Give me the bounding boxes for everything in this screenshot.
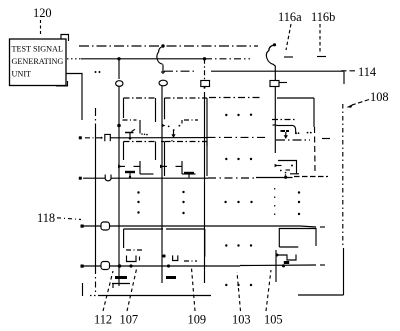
leader 105 [266, 270, 271, 311]
bus2 stray dashes [284, 56, 293, 58]
data line col2 [161, 86, 163, 283]
TFT/cap T12 [118, 161, 154, 178]
gate test line y=71.2 [164, 70, 196, 72]
panel border left (dash-dot bottom) [95, 268, 97, 295]
label 108 [370, 90, 389, 104]
svg-text:TEST SIGNAL: TEST SIGNAL [12, 45, 63, 54]
svg-text:UNIT: UNIT [12, 70, 32, 79]
svg-text:105: 105 [264, 313, 283, 327]
label 120 [33, 6, 52, 20]
panel border left (solid mid) [95, 128, 97, 268]
leader 107 [127, 267, 137, 311]
repetition dots columns (vertical ellipsis) [137, 191, 300, 215]
svg-text:107: 107 [120, 313, 139, 327]
bus1 hook drop at x=275 with hop [266, 45, 275, 81]
gate line G1 main [110, 137, 207, 139]
pad P4 (square) [270, 81, 279, 87]
panel top dash-dot segment [209, 97, 262, 99]
wire drop x=119 [118, 59, 120, 79]
stray dots right of box wire [95, 71, 97, 73]
label 116b [311, 10, 335, 24]
leader 108 with arrow [352, 100, 369, 106]
svg-text:GENERATING: GENERATING [12, 57, 64, 66]
gate line G2 main [111, 177, 208, 179]
pixel cell (4,1) [277, 98, 315, 171]
pixel cell (2,1) [165, 98, 208, 146]
label 109 [188, 313, 207, 327]
node on bus1 at x=163 [161, 44, 164, 47]
gate line G2 y=178.2 left [79, 177, 105, 180]
pad P3 (square) [201, 81, 210, 87]
svg-text:108: 108 [370, 90, 389, 104]
leader 112 [103, 271, 113, 311]
panel border right (dash-dot x=342.8) [342, 104, 344, 248]
gate line G1 y=137.8 left leader [79, 136, 103, 139]
bus line 2 (solid test data line, y=58.8) [67, 58, 81, 60]
pixel cell (1,2) [124, 142, 156, 161]
label 112 [94, 313, 112, 327]
svg-text:112: 112 [94, 313, 112, 327]
gate line G3 y=226 left [81, 225, 102, 228]
pad P4 stub [279, 82, 287, 84]
svg-text:118: 118 [37, 211, 55, 225]
test signal generating unit box U120 [10, 35, 69, 86]
leader 116b [319, 24, 321, 54]
TFT T21 [161, 120, 198, 142]
pixel cell (2,2) [165, 142, 208, 177]
svg-text:109: 109 [188, 313, 207, 327]
bus line 1 (dash-dot test data line, y=46) [79, 45, 258, 47]
pixel cell (1,3) [124, 229, 163, 250]
bottom TFT B4 [276, 254, 297, 268]
pixel cell (4,2) [278, 161, 297, 175]
data line col1 [118, 87, 120, 287]
TFT/cap T42 [275, 164, 293, 179]
box text [12, 45, 64, 79]
svg-text:116b: 116b [311, 10, 335, 24]
data line col4 dotted mid [274, 188, 276, 220]
left test line vertical x=82 lower segment [82, 283, 84, 296]
TFT T11 [117, 120, 148, 140]
gate pad G2 (U shape) [105, 175, 111, 181]
label 105 [264, 313, 283, 327]
right corner of gate test line [343, 71, 345, 84]
panel border left (dash-dot x=95.5 top) [95, 108, 97, 128]
leader 116a [286, 24, 291, 50]
leader 109 [192, 268, 196, 311]
label 107 [120, 313, 139, 327]
svg-text:120: 120 [33, 6, 52, 20]
svg-text:116a: 116a [278, 10, 302, 24]
gate line G4 y=266 left [81, 265, 102, 268]
leader for 120 [40, 20, 42, 35]
gate line G4 main [110, 265, 241, 267]
gate line G1 right dashes [276, 139, 310, 141]
node bus2 x=119 [117, 57, 120, 60]
TFT T41 [272, 120, 312, 140]
label 114 [358, 65, 376, 79]
bottom TFT B1 [112, 256, 140, 289]
data line col3 [204, 92, 206, 283]
wire drop x=163 with hop over bus2 [157, 47, 163, 65]
wire drop x=204.5 (dash-dot) [204, 59, 206, 81]
data line col4 lower [275, 250, 277, 282]
svg-text:114: 114 [358, 65, 376, 79]
pad P2 (oval) [159, 80, 167, 86]
panel border bottom (dash-dot y=295.5) [90, 295, 97, 297]
pixel cell (1,1) [124, 98, 156, 122]
pad P1 (oval) [116, 81, 123, 87]
label 116a [278, 10, 302, 24]
gate pad G4 (O shape) [101, 262, 110, 270]
leader 118 [57, 218, 81, 220]
label 103 [232, 313, 251, 327]
bottom TFT B2 [162, 254, 177, 279]
data line col4 upper [274, 87, 276, 154]
svg-text:103: 103 [232, 313, 251, 327]
leader 114 [341, 70, 356, 72]
pixel cell (4,3) [279, 229, 316, 248]
panel border bottom-right corner [298, 294, 344, 296]
TFT/cap T22 [160, 161, 196, 178]
leader 103 [237, 272, 241, 311]
repetition dots rows (horizontal ellipsis) [224, 114, 252, 287]
label 118 [37, 211, 55, 225]
gate pad G1 (n shape) [105, 134, 111, 141]
node at bus1 hook [273, 43, 276, 46]
pixel cell (2,3) [166, 229, 205, 261]
wire from box to left vertical [66, 74, 82, 121]
gate pad G3 (O shape) [101, 222, 110, 230]
gate line G3 main [110, 225, 301, 227]
node bus2 x=204.5 [203, 57, 206, 60]
